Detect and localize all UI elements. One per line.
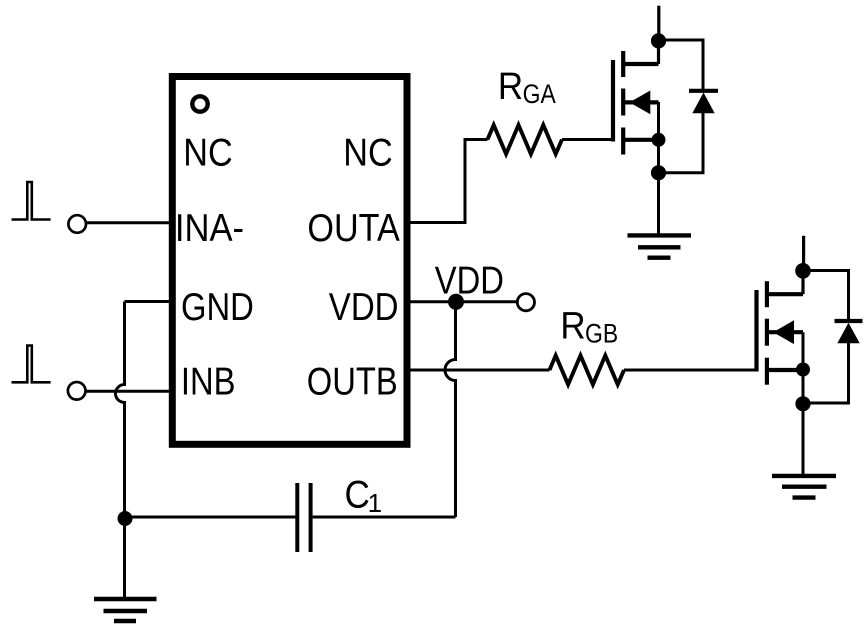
pulse source symbol B	[12, 346, 51, 383]
svg-text:GB: GB	[585, 319, 618, 349]
transistor Q2 body arrow	[773, 320, 794, 344]
svg-text:R: R	[498, 64, 523, 107]
node Q1 source-diode	[651, 165, 666, 180]
transistor Q1 drain stub	[623, 62, 658, 66]
svg-text:VDD: VDD	[329, 284, 399, 328]
transistor Q1 source stub	[623, 138, 658, 142]
wire VDD pin to terminal	[407, 300, 517, 303]
wire drain to diode D1	[659, 40, 704, 91]
svg-text:1: 1	[368, 488, 382, 518]
transistor Q1 channel segments	[621, 51, 625, 155]
ground (left)	[94, 599, 157, 621]
node Q2 source-diode	[795, 396, 810, 411]
svg-text:C: C	[345, 472, 370, 516]
diode D1 triangle	[692, 93, 714, 114]
diode D2 cathode bar	[835, 319, 863, 323]
wire Q1 drain top	[657, 6, 660, 41]
ground (Q2)	[772, 476, 836, 498]
node gnd net junction	[118, 511, 133, 526]
wire gnd net vertical with hop over INB wire	[116, 302, 125, 600]
capacitor C1	[297, 483, 310, 552]
ground (Q1)	[628, 235, 692, 257]
wire RGB to Q2 gate	[624, 369, 757, 372]
svg-text:R: R	[560, 304, 585, 347]
node Q2 drain	[795, 263, 811, 279]
svg-text:OUTB: OUTB	[307, 359, 398, 403]
IC U1 body	[172, 77, 407, 445]
svg-text:NC: NC	[343, 131, 392, 175]
svg-text:GND: GND	[181, 284, 254, 328]
wire drain to diode D2	[803, 271, 849, 322]
svg-text:OUTA: OUTA	[307, 206, 400, 250]
transistor Q2 body wire	[767, 330, 803, 334]
transistor Q2 gate bar	[754, 290, 758, 372]
wire diode D1 to source	[659, 113, 704, 173]
input terminal A	[68, 215, 86, 233]
transistor Q2 source stub	[767, 368, 803, 372]
diode D2 triangle	[837, 323, 859, 344]
resistor RGA	[488, 125, 563, 154]
transistor Q2 channel segments	[765, 281, 769, 385]
wire C1 to VDD net	[313, 516, 456, 519]
wire RGA to Q1 gate	[562, 138, 613, 141]
VDD terminal	[517, 294, 534, 311]
resistor RGB	[550, 356, 625, 385]
wire Q2 source vertical	[802, 332, 805, 475]
wire INB	[86, 390, 170, 393]
svg-text:INA-: INA-	[175, 206, 244, 249]
input terminal B	[68, 382, 86, 400]
wire Q1 source vertical	[657, 102, 660, 236]
wire Q2 drain top	[802, 236, 805, 271]
node VDD junction	[448, 294, 464, 310]
transistor Q1 body wire	[623, 100, 658, 104]
node Q2 source	[796, 363, 810, 377]
wire gnd to C1	[125, 516, 296, 519]
wire OUTA to resistor	[407, 140, 488, 223]
wire GND pin to gnd net	[125, 300, 171, 303]
wire VDD net vertical with hop over OUTB wire	[445, 302, 455, 517]
transistor Q2 drain stub	[767, 292, 803, 296]
transistor Q1 gate bar	[611, 60, 615, 142]
wire OUTB to resistor	[407, 369, 550, 372]
pulse source symbol A	[12, 182, 51, 220]
svg-text:VDD: VDD	[435, 258, 504, 302]
svg-text:GA: GA	[523, 79, 556, 109]
node Q1 source	[652, 133, 666, 147]
svg-text:NC: NC	[183, 131, 232, 175]
diode D1 cathode bar	[689, 89, 718, 93]
wire INA-	[87, 221, 171, 224]
transistor Q1 body arrow	[630, 91, 651, 115]
svg-text:INB: INB	[181, 359, 236, 403]
pin 1 indicator	[192, 96, 207, 111]
node Q1 drain	[651, 33, 666, 48]
wire diode D2 to source	[803, 343, 849, 403]
